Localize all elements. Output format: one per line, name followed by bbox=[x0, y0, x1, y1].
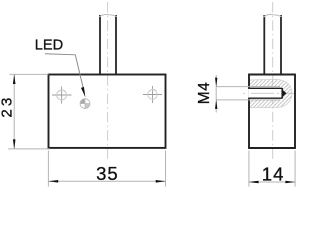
dimension M4 line bbox=[215, 75, 217, 113]
tapped hole white interior bbox=[249, 87, 282, 100]
dimension 35 arrow left bbox=[48, 180, 58, 183]
front view plunger rod bbox=[99, 14, 116, 74]
dimension M4 arrow down bbox=[215, 78, 217, 87]
side view plunger rod bbox=[264, 14, 282, 74]
svg-text:LED: LED bbox=[35, 37, 63, 53]
dimension 23 extension line bottom bbox=[8, 148, 50, 150]
dimension 35 line bbox=[49, 180, 166, 182]
dimension 35 extension line right bbox=[165, 151, 167, 187]
dimension 14 extension line right bbox=[294, 151, 296, 187]
tapped hole horizontal centerline bbox=[243, 92, 297, 94]
LED indicator ball bbox=[80, 99, 90, 109]
dimension 14 arrow right bbox=[285, 181, 295, 184]
dimension 23 arrow up bbox=[13, 74, 16, 84]
svg-text:M4: M4 bbox=[196, 82, 213, 105]
dimension M4 arrow up bbox=[215, 100, 217, 109]
front view vertical centerline bbox=[107, 2, 109, 161]
threaded boss hatched section bbox=[249, 79, 292, 107]
dimension 23 line bbox=[13, 75, 15, 149]
mounting hole crosshair right bbox=[143, 86, 162, 103]
dimension 23 extension line top bbox=[10, 73, 49, 75]
mounting hole crosshair left bbox=[52, 86, 72, 103]
side view body bbox=[248, 75, 296, 149]
drill point cone bbox=[282, 89, 287, 97]
LED leader line bbox=[45, 54, 84, 93]
dimension 23 arrow down bbox=[13, 139, 16, 149]
svg-text:23: 23 bbox=[0, 95, 16, 118]
tapped hole M4 bbox=[248, 88, 282, 99]
dimension 14 line bbox=[249, 181, 295, 183]
LED leader arrowhead bbox=[81, 87, 85, 98]
svg-text:35: 35 bbox=[96, 163, 119, 184]
dimension 14 arrow left bbox=[249, 181, 259, 184]
thread major diameter line top / M4 extension bbox=[216, 86, 280, 88]
side view vertical centerline bbox=[272, 2, 274, 161]
thread major diameter line bottom / M4 extension bbox=[216, 99, 280, 101]
dimension 35 arrow right bbox=[156, 180, 166, 183]
front view body bbox=[49, 75, 166, 148]
dimension 14 extension line left bbox=[248, 151, 250, 187]
svg-text:14: 14 bbox=[262, 163, 285, 184]
dimension 35 extension line left bbox=[47, 151, 49, 187]
